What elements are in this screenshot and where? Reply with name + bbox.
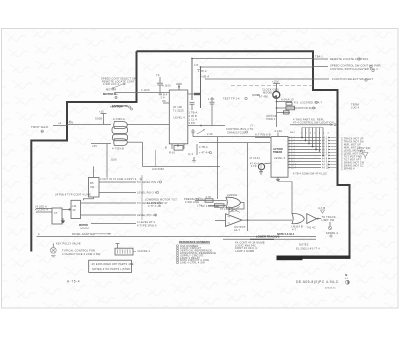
label choke shield [138, 249, 151, 253]
label EL number above bar [296, 242, 320, 250]
svg-text:CONTROL SWITCH-LIGHTED PNL 4: CONTROL SWITCH-LIGHTED PNL 4 [330, 67, 378, 71]
matrix fan vertical 3 [308, 128, 310, 145]
transistor arrow mark [197, 129, 205, 134]
svg-text:4-10A: 4-10A [275, 129, 283, 133]
U1 right pin labels [189, 111, 198, 126]
svg-text:LAMP 4 NUMB: LAMP 4 NUMB [235, 249, 254, 253]
svg-text:LEVEL 2: LEVEL 2 [274, 156, 286, 160]
wire gate U7 output to x143 [127, 141, 143, 143]
label typical control [62, 249, 101, 256]
svg-text:4 NE-4: 4 NE-4 [200, 75, 209, 79]
label TP-2 ticks [194, 63, 209, 79]
svg-text:A/N 5084: A/N 5084 [152, 167, 164, 171]
svg-text:4A-7: 4A-7 [234, 228, 240, 232]
svg-text:P.S. LOCATED IN A-7: P.S. LOCATED IN A-7 [294, 100, 323, 104]
label motor pwr [267, 114, 277, 121]
matrix fan vertical 6 [319, 128, 321, 152]
svg-text:4 TT-7-4B: 4 TT-7-4B [148, 204, 161, 208]
svg-text:A-75-4: A-75-4 [67, 280, 80, 284]
wire into connector box [255, 136, 271, 138]
wire bottom long y236 [37, 232, 317, 236]
wire left input2 [36, 211, 52, 213]
label A-7-B flag [318, 206, 326, 213]
label NC arrow row [201, 204, 233, 211]
svg-text:A-2 4: A-2 4 [289, 140, 296, 143]
svg-text:47-4 CONTROL SW LOCATION: 47-4 CONTROL SW LOCATION [293, 121, 334, 125]
wire y112 [277, 111, 291, 114]
svg-text:TWIST SHLD: TWIST SHLD [31, 125, 48, 129]
label N tick [345, 273, 349, 280]
op-amp U4 gate [292, 213, 305, 231]
valve symbol [50, 244, 56, 257]
svg-text:A-7 P(N A-B: A-7 P(N A-B [255, 132, 271, 136]
svg-text:A-3 4: A-3 4 [289, 143, 296, 146]
svg-text:EL-250(1)-43-77 4: EL-250(1)-43-77 4 [296, 247, 320, 251]
svg-text:LIMIT SW: LIMIT SW [322, 218, 335, 222]
svg-text:OK: OK [162, 99, 166, 103]
svg-text:4A-7: 4A-7 [290, 131, 296, 134]
svg-text:NOTE 5-4-32-1: NOTE 5-4-32-1 [277, 233, 295, 236]
matrix fan vertical 5 [315, 128, 317, 151]
svg-text:A-6 4: A-6 4 [289, 152, 296, 155]
op-amp U5 triangle [307, 214, 317, 230]
label above boxes row [55, 192, 91, 196]
notes list item 7 [177, 258, 210, 262]
matrix fan vertical 2 [305, 128, 307, 142]
label PS located row [294, 100, 323, 104]
svg-text:ASSY NOTE: ASSY NOTE [112, 104, 128, 108]
wire U5 output [317, 215, 336, 222]
wire arrow into clock [252, 94, 260, 96]
svg-text:1 4: 1 4 [161, 95, 165, 99]
power +15V tap at x103 [95, 109, 107, 124]
label test point row [223, 97, 247, 101]
svg-text:4 TYPE 2P(N 4: 4 TYPE 2P(N 4 [137, 224, 157, 228]
matrix fan vertical 1 [301, 128, 303, 139]
svg-text:1 TB-A: 1 TB-A [189, 111, 198, 115]
svg-text:40: 40 [73, 208, 77, 212]
svg-text:4( 4: 4( 4 [188, 152, 193, 156]
svg-text:4X EXPLODED 4PP PARTS 4RE: 4X EXPLODED 4PP PARTS 4RE [92, 262, 134, 266]
svg-text:4A 11: 4A 11 [322, 167, 329, 170]
node bus1 junction [191, 58, 193, 60]
svg-text:4 05 B: 4 05 B [189, 114, 198, 118]
svg-text:4 R: 4 R [194, 63, 199, 67]
wire left input1 [36, 208, 52, 210]
svg-text:R5: R5 [90, 181, 94, 185]
wire y125 control [188, 125, 225, 127]
svg-text:N: N [345, 273, 347, 277]
op-amp U2 gate [226, 193, 241, 208]
svg-text:4 1 4 1 4 1 4: 4 1 4 1 4 1 4 [301, 133, 330, 135]
wire y108 [277, 106, 317, 110]
op-amp U7 OR gate lower [112, 134, 128, 150]
svg-text:4A 9: 4A 9 [322, 161, 328, 164]
svg-text:LOWER TRACK(4): LOWER TRACK(4) [256, 235, 280, 239]
matrix fan top ticks [290, 128, 330, 135]
notes list item 2 [177, 246, 202, 250]
svg-text:4 1100: 4 1100 [141, 88, 150, 92]
wire vertical x142 lower faint [141, 175, 143, 220]
IC U1 box [169, 90, 188, 144]
svg-text:REMOTE LOCATE CONTROL: REMOTE LOCATE CONTROL [330, 57, 369, 61]
wire vertical drop x200 [200, 67, 202, 108]
resistor R2 on input [205, 195, 213, 202]
choke component hatched [115, 244, 136, 255]
svg-text:MOTOR: MOTOR [79, 224, 88, 227]
wire gate U7 input [91, 144, 111, 148]
heavy schematic border top/right [137, 51, 350, 256]
wire bus2 [201, 66, 314, 68]
capacitor C3 small [191, 129, 195, 137]
svg-text:4W: 4W [90, 185, 95, 189]
svg-text:+5V: +5V [92, 144, 97, 148]
svg-text:AT 10K: AT 10K [173, 105, 182, 109]
label header part no above matrix [293, 118, 334, 125]
wire vertical x247 [247, 143, 249, 231]
notes list item 4 [177, 251, 217, 255]
notes right block [235, 241, 265, 253]
svg-text:A-4 4: A-4 4 [289, 146, 296, 149]
svg-text:MOTOR B+: MOTOR B+ [103, 92, 118, 96]
svg-text:LEVEL 4: LEVEL 4 [174, 116, 186, 120]
notes list item 3 [177, 249, 213, 253]
heavy schematic border left [31, 51, 136, 251]
svg-text:KEY PULLY VALVE: KEY PULLY VALVE [56, 241, 81, 245]
wire clock down [276, 99, 278, 127]
wire vertical x292 [278, 182, 292, 214]
svg-text:4 TB-4 CONN SW 47-4 LOC: 4 TB-4 CONN SW 47-4 LOC [293, 173, 327, 176]
svg-text:A-7 4: A-7 4 [289, 155, 296, 158]
matrix row 9 [288, 161, 365, 165]
label left of U1 [161, 93, 168, 100]
relay box B3 [52, 208, 62, 224]
svg-text:LUG 4: LUG 4 [351, 106, 360, 110]
wire U2 out bend to U3 [229, 203, 245, 214]
svg-text:A-1 4: A-1 4 [289, 137, 296, 140]
wire main y92 [114, 88, 169, 92]
wire U2 input row1 [195, 196, 226, 200]
flag test symbol right [357, 146, 371, 159]
wire matrix top y124.5 [290, 124, 336, 126]
svg-text:LM: LM [73, 204, 77, 208]
svg-text:3 PO: 3 PO [189, 121, 196, 125]
svg-text:J7 ↑: J7 ↑ [250, 124, 255, 128]
wire gate U6 output [127, 124, 169, 126]
power tap on U1 top [176, 84, 182, 90]
svg-text:4-7: 4-7 [292, 227, 297, 231]
wire horizontal y166 [143, 166, 221, 170]
wire y94 right of U1 [188, 93, 201, 95]
svg-text:DE-505-8(0)PC 4-94-C: DE-505-8(0)PC 4-94-C [296, 280, 339, 284]
svg-text:NOTED 4 ON PARTS L(STED: NOTED 4 ON PARTS L(STED [92, 267, 130, 271]
wire bus4 dashed [231, 85, 313, 87]
label +B supply bold below border [110, 105, 133, 111]
svg-text:R-10: R-10 [169, 151, 176, 155]
svg-text:4 CHAN/CYCLE 4 LINE 4 SW: 4 CHAN/CYCLE 4 LINE 4 SW [62, 252, 101, 256]
svg-text:SPARE 4: SPARE 4 [326, 231, 338, 235]
svg-text:C SPARE 4: C SPARE 4 [341, 168, 355, 171]
capacitor TP x160 [156, 74, 171, 96]
wire twist shld lead [53, 121, 67, 125]
node bus2 junction [200, 66, 202, 68]
svg-text:4X344 4C: 4X344 4C [325, 288, 336, 290]
svg-text:TP: TP [156, 74, 160, 78]
connector box top pin [275, 129, 283, 137]
svg-text:741 4C: 741 4C [307, 225, 316, 229]
svg-text:PANEL ADAPTER: PANEL ADAPTER [72, 232, 95, 236]
matrix row 1 [288, 137, 364, 141]
label line at box B1 top [100, 177, 142, 181]
svg-text:4 TB-4: 4 TB-4 [199, 145, 208, 149]
matrix fan vertical 7 [322, 128, 324, 157]
svg-text:TL-2125: TL-2125 [173, 109, 184, 113]
svg-text:2.2K: 2.2K [207, 132, 213, 136]
matrix row 3 [288, 143, 361, 147]
inductor squiggle bottom [79, 224, 89, 229]
svg-text:4T: 4T [54, 211, 58, 215]
label key pully valve [56, 241, 81, 245]
svg-text:A-5 4: A-5 4 [289, 149, 296, 152]
matrix row 10 [288, 164, 364, 168]
title text [296, 280, 339, 284]
label motor b+ bold [103, 92, 118, 96]
svg-text:REFERENCE NUMBERS: REFERENCE NUMBERS [179, 240, 210, 244]
node junction left cluster [62, 209, 71, 211]
wire y136 [193, 132, 270, 136]
svg-text:TIMER4: TIMER4 [273, 151, 283, 154]
label lowered motor block [145, 198, 177, 209]
wire bottom second y239 [223, 238, 316, 240]
svg-text:TB4-1: TB4-1 [315, 55, 323, 59]
svg-text:CHOKE 4: CHOKE 4 [138, 249, 151, 253]
motor circle M1 [250, 158, 272, 170]
wire stub label row1 REMOTE LOCATE [313, 55, 369, 61]
label TWIST SHLD [31, 125, 48, 132]
wire level row2 [99, 191, 159, 195]
capacitor C1 on x192 [190, 102, 195, 110]
svg-text:NC 4: NC 4 [201, 204, 208, 208]
svg-text:1 CL 4: 1 CL 4 [189, 118, 198, 122]
matrix row 6 [288, 152, 363, 156]
matrix row 5 [288, 149, 363, 153]
clock oscillator circle [273, 91, 280, 98]
wire vertical x142 down [142, 142, 144, 166]
svg-text:4-7339-A: 4-7339-A [113, 117, 125, 121]
svg-text:SPEED CONTROL SW-CONT NO PWR: SPEED CONTROL SW-CONT NO PWR [330, 63, 381, 67]
notes list title [179, 240, 210, 244]
switch cluster top-left [101, 77, 137, 92]
label assy note dark [112, 104, 131, 108]
label pressure rows [184, 197, 204, 204]
title small subtext [325, 288, 336, 290]
notes list item 8 [177, 261, 206, 265]
connector box bottom pin ground [276, 177, 280, 181]
svg-text:4.7K: 4.7K [206, 195, 212, 199]
bordered note box [89, 260, 134, 272]
matrix row 8 [288, 158, 362, 162]
wire vertical x107 down [107, 144, 117, 178]
ground below motor [259, 170, 263, 175]
label left inputs [35, 204, 48, 211]
svg-text:LEVEL P(N 1 4: LEVEL P(N 1 4 [137, 213, 157, 217]
wire y142 long [199, 142, 270, 144]
matrix row 11 [288, 167, 355, 171]
node cross below wire [115, 96, 117, 98]
label term lug [351, 103, 360, 110]
svg-text:A-10 4: A-10 4 [289, 164, 297, 167]
label below matrix [293, 173, 327, 176]
notes list item 6 [177, 256, 201, 260]
wire stub label row3 CONTROL SWITCH [330, 67, 378, 72]
svg-text:+4: +4 [58, 121, 62, 125]
svg-text:LINE 4 CTRL 4 SW: LINE 4 CTRL 4 SW [180, 261, 205, 265]
svg-text:A 04 A-10: A 04 A-10 [281, 98, 294, 102]
relay box B2 [71, 200, 81, 218]
relay box B1 [89, 178, 100, 198]
U1 bottom pins [165, 144, 184, 150]
resistor block under U1 [169, 146, 183, 155]
svg-text:4A 10: 4A 10 [322, 164, 329, 167]
svg-text:4 SW LOC 4: 4 SW LOC 4 [103, 82, 119, 86]
svg-text:4T 43-4: 4T 43-4 [250, 163, 259, 165]
heavy bottom bar [277, 256, 351, 261]
svg-text:+15V: +15V [272, 79, 279, 83]
wire vertical drop x192 [191, 59, 193, 101]
svg-text:J4 P(N 4 TYP CONT 4 LINE: J4 P(N 4 TYP CONT 4 LINE [55, 192, 91, 196]
ground tick x194 [192, 157, 196, 162]
svg-text:LEVEL P(N 2 4: LEVEL P(N 2 4 [137, 191, 157, 195]
svg-text:4 TR: 4 TR [251, 166, 257, 168]
svg-text:+15: +15 [99, 109, 104, 113]
wire pin drop x197 [188, 144, 212, 156]
svg-text:PWR 4: PWR 4 [267, 117, 276, 121]
svg-text:4 LEVEL 2P 4: 4 LEVEL 2P 4 [137, 220, 155, 224]
wire y101 to right [277, 98, 295, 102]
label clock gen [259, 88, 279, 99]
ground symbol below output [326, 222, 338, 237]
label note dark left of bar [277, 233, 295, 236]
op-amp U3 triangle [226, 214, 246, 232]
wire U1 left pin y103 [162, 99, 169, 103]
svg-text:4-7339-B: 4-7339-B [112, 146, 124, 150]
label J7 [250, 124, 255, 128]
svg-text:4A 8: 4A 8 [322, 158, 328, 161]
ground left cluster [61, 218, 65, 224]
svg-text:J106: J106 [111, 158, 118, 162]
svg-text:A-8 4: A-8 4 [289, 158, 296, 161]
svg-text:LM2904: LM2904 [227, 193, 238, 197]
wire level row5 [91, 220, 157, 228]
svg-text:A7 490: A7 490 [259, 95, 269, 99]
wire level row3 [81, 201, 161, 205]
svg-text:MODEL: MODEL [263, 91, 273, 95]
svg-text:4T LINE 4: 4T LINE 4 [220, 207, 233, 211]
title revision circle [345, 280, 349, 284]
svg-text:TO LEVEL P(N 2: TO LEVEL P(N 2 [137, 180, 159, 184]
label control bus text [226, 127, 253, 134]
svg-text:B: B [165, 146, 167, 150]
junction dots clock column [276, 101, 278, 109]
svg-text:4 NOT IN 47 LINE 4 ASSY 4: 4 NOT IN 47 LINE 4 ASSY 4 [100, 177, 137, 181]
label panel adapter [72, 232, 111, 236]
matrix row 4 [288, 146, 361, 150]
wire B1 to B2 link [84, 197, 94, 200]
label between gates [231, 209, 237, 213]
wire vertical x217 [217, 137, 219, 199]
wire x93 down to B1 [93, 166, 95, 177]
svg-text:47 43-44: 47 43-44 [250, 158, 261, 160]
wire stub label row4 FUNCTION SELECT [313, 77, 373, 81]
wire gate input y124 [67, 121, 111, 125]
notes list item 1 [177, 244, 199, 248]
label A-75-4 [67, 280, 80, 284]
svg-text:+ 4T 4-4: + 4T 4-4 [199, 151, 210, 155]
svg-text:A 1100: A 1100 [162, 84, 171, 88]
wire stub label row2 SPEED CONTROL [313, 63, 381, 67]
svg-text:A-11 4: A-11 4 [289, 167, 297, 170]
matrix row 2 [288, 140, 364, 144]
connector box K1 [271, 137, 288, 178]
wire bus1 [192, 58, 313, 60]
op-amp U6 OR gate upper [112, 117, 128, 133]
label lower track dark [256, 235, 280, 239]
wire U3 output long [242, 219, 292, 221]
wire level row1 [99, 180, 162, 184]
wire bus3 [205, 78, 313, 80]
capacitor C2 on x212 [208, 97, 215, 126]
matrix fan vertical 4 [312, 128, 314, 148]
svg-text:1 MF: 1 MF [208, 97, 215, 101]
svg-text:4 SW LINE: 4 SW LINE [185, 200, 199, 204]
label J1 A-B [255, 132, 271, 136]
wire x155 drop [155, 150, 157, 166]
svg-text:NOTES: NOTES [299, 242, 309, 246]
svg-text:TEST TP 1-4: TEST TP 1-4 [223, 97, 240, 101]
svg-text:A-9 4: A-9 4 [289, 161, 296, 164]
svg-text:A-7-B: A-7-B [318, 206, 326, 210]
wire level row4 [81, 213, 157, 217]
matrix row 7 [288, 155, 362, 159]
breaker CB small box [286, 102, 292, 105]
wire U2 input row2 [197, 204, 226, 221]
svg-text:CHAN/CYCLE: CHAN/CYCLE [227, 130, 245, 134]
svg-text:SU08: SU08 [95, 117, 102, 121]
power +15V bar above clock [272, 79, 280, 91]
notes list item 5 [177, 253, 204, 257]
